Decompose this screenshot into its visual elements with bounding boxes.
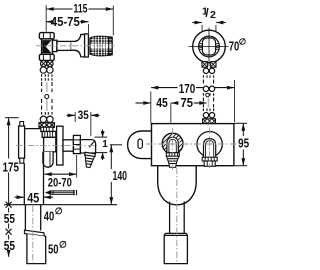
- svg-text:55: 55: [4, 211, 15, 226]
- svg-text:2: 2: [210, 9, 216, 21]
- connection face outer circle: [193, 30, 226, 63]
- svg-text:75: 75: [181, 96, 194, 110]
- valve 1 arch: [167, 137, 178, 153]
- dimension 170 extension lines: [150, 92, 152, 124]
- vertical duct behind: [23, 163, 25, 205]
- offset coupling: [25, 230, 45, 236]
- angle valve body: [42, 39, 53, 55]
- 40 pipe: [25, 205, 40, 231]
- funnel axis: [176, 168, 178, 264]
- right hose top crimp: [202, 62, 216, 68]
- svg-text:55: 55: [4, 238, 15, 253]
- svg-text:45-75: 45-75: [51, 15, 80, 29]
- svg-text:45: 45: [156, 96, 168, 110]
- svg-text:/: /: [205, 6, 209, 20]
- dimension 175 line: [8, 118, 10, 159]
- dimension 45-75 extension right: [88, 24, 90, 33]
- dimension 45 (right) arrow: [136, 102, 151, 104]
- dimension 1 ticks: [95, 136, 108, 138]
- valve axis: [36, 45, 116, 47]
- dimension 55 upper: [8, 208, 10, 213]
- dash rows: [42, 74, 52, 81]
- handle rib bands: [90, 38, 112, 55]
- handle end cap line: [108, 37, 110, 55]
- horizontal outlet pipe: [63, 140, 73, 151]
- hose top crimp (below valve): [41, 61, 54, 67]
- elbow body: [80, 140, 95, 153]
- dimension 140 top tick: [110, 144, 122, 146]
- valve outlet collar: [53, 40, 57, 51]
- svg-text:35: 35: [78, 108, 89, 122]
- dimension 1/2 extension lines: [201, 25, 203, 36]
- svg-text:40: 40: [44, 209, 55, 223]
- dimension 170 line and arrows: [151, 87, 177, 89]
- outlet nut: [73, 135, 80, 153]
- fitting inlet nut: [41, 127, 53, 131]
- handle knurl darks: [94, 37, 105, 56]
- dimension 95 arrows: [241, 123, 245, 165]
- handle knurl separators: [93, 37, 107, 56]
- svg-text:95: 95: [238, 136, 249, 150]
- face crosshair: [189, 46, 229, 48]
- valve 2 axis: [209, 128, 211, 169]
- mounting lug: [128, 131, 152, 159]
- dimension 115 extension line right: [112, 6, 114, 36]
- dashed verticals: [42, 82, 52, 92]
- 50 pipe: [27, 234, 46, 264]
- funnel pipe: [170, 202, 185, 234]
- svg-text:50: 50: [48, 242, 59, 256]
- svg-text:140: 140: [113, 169, 128, 183]
- svg-text:∅: ∅: [59, 239, 67, 249]
- dimension 55 lower: [8, 235, 10, 240]
- right hose bottom crimp: [203, 119, 216, 124]
- valve 2 hex: [204, 161, 215, 166]
- svg-text:20-70: 20-70: [48, 176, 72, 190]
- nut hatch left: [199, 43, 203, 50]
- bracket bar: [25, 128, 44, 130]
- nut hatch right: [216, 43, 220, 50]
- wall plate top tab: [20, 122, 24, 126]
- X mark 1: [6, 202, 12, 208]
- dimension 175 arrow: [7, 118, 11, 126]
- dimension 75 left arrow: [171, 102, 178, 104]
- dimension 115 extension line left: [45, 5, 47, 32]
- braided hose left: [40, 67, 53, 123]
- svg-text:70: 70: [229, 39, 240, 53]
- dimension 1 arrows: [102, 130, 104, 137]
- svg-text:1: 1: [102, 139, 108, 150]
- face nut: [202, 38, 215, 55]
- dimension 115 line: [46, 8, 72, 10]
- fitting axis: [16, 145, 97, 147]
- horizontal pipe to wall: [57, 41, 71, 50]
- dimension 20-70 extension right: [76, 155, 78, 178]
- dimension 1/2 arrows: [192, 22, 201, 24]
- ring row 1: [40, 67, 53, 73]
- wall plate bottom tab: [20, 158, 24, 163]
- valve 2 (right): [197, 132, 222, 167]
- drain pipe axis: [32, 206, 34, 263]
- dimension 20-70 line and arrows: [44, 173, 76, 175]
- valve 1 extension line: [170, 103, 172, 133]
- valve 1 barb: [166, 156, 178, 158]
- dimension 95 ticks: [234, 122, 247, 124]
- dimension 75 right arrow: [194, 102, 207, 104]
- centerline layer (axes drawn on top): [16, 46, 240, 263]
- angle valve top hex nut: [39, 33, 54, 39]
- lug slot: [138, 139, 142, 148]
- svg-text:∅: ∅: [239, 37, 247, 47]
- dimension 35 arrows: [67, 114, 75, 116]
- floor line: [4, 204, 117, 206]
- wall escutcheon plate (tall): [57, 126, 63, 165]
- face inner circle: [199, 36, 220, 57]
- escutcheon bell: [71, 34, 84, 57]
- dimension 140 line: [110, 145, 112, 169]
- escutcheon plate: [85, 34, 89, 57]
- valve 2 collar: [202, 157, 217, 161]
- svg-text:115: 115: [74, 2, 88, 16]
- coupling: [164, 233, 187, 263]
- svg-text:∅: ∅: [55, 206, 63, 216]
- svg-text:175: 175: [3, 160, 20, 175]
- valve 1 nut: [166, 153, 179, 157]
- funnel cup: [158, 166, 197, 205]
- dimension 35 extension lines: [74, 112, 76, 122]
- knurled handle: [90, 36, 112, 55]
- dimension 175 top tick: [5, 117, 19, 119]
- fitting collar (hatched): [42, 131, 56, 137]
- valve 1 axis: [172, 128, 174, 170]
- ring row bottom: [40, 116, 53, 122]
- hose bottom crimp: [39, 123, 54, 128]
- unit body: [152, 124, 234, 166]
- angle valve bottom hex nut: [39, 54, 54, 60]
- dimension 95 line: [242, 124, 244, 136]
- svg-text:170: 170: [179, 82, 196, 96]
- dimension 140 arrows: [109, 145, 113, 205]
- wall anchor screw: [46, 190, 76, 195]
- hose barb on elbow: [83, 152, 95, 168]
- fitting body: [44, 137, 56, 151]
- valve 1 (left, with barb): [158, 124, 188, 167]
- dimension 45-75 line: [46, 21, 50, 23]
- dimension 45 (pipe) arrows: [15, 196, 24, 198]
- X mark 2: [6, 229, 12, 235]
- svg-text:45: 45: [27, 189, 39, 205]
- fitting bottom stub: [43, 152, 53, 167]
- braided hose right: [203, 68, 214, 118]
- unit body axis: [146, 143, 240, 145]
- wall plate: [19, 126, 25, 158]
